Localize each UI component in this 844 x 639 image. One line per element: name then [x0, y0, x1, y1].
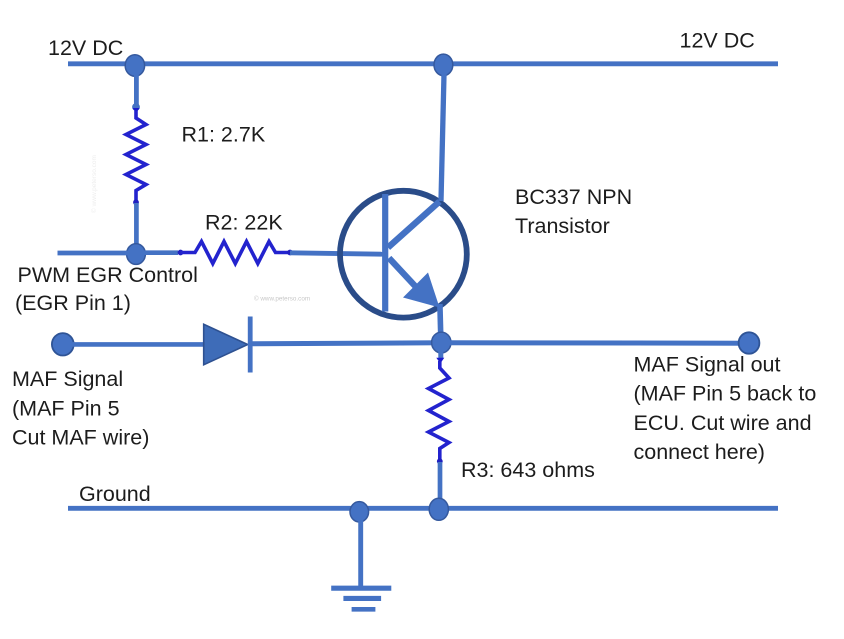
- label 12V DC right: [680, 29, 755, 53]
- wire collector to node B: [441, 66, 444, 201]
- resistor R2: [178, 242, 293, 264]
- watermark vertical: [90, 155, 98, 213]
- svg-text:12V DC: 12V DC: [48, 36, 123, 60]
- wire node A to R1: [132, 65, 140, 111]
- node B (12V rail / collector junction): [434, 54, 453, 76]
- node C (emitter / MAF junction): [432, 332, 451, 353]
- svg-text:(MAF Pin 5: (MAF Pin 5: [12, 396, 120, 420]
- svg-text:R1: 2.7K: R1: 2.7K: [182, 122, 266, 146]
- resistor R3: [429, 358, 450, 464]
- label 12V DC left: [48, 36, 123, 60]
- svg-text:© www.peterso.com: © www.peterso.com: [90, 155, 98, 213]
- svg-text:(MAF Pin 5 back to: (MAF Pin 5 back to: [634, 382, 817, 406]
- wire node C to R3: [438, 342, 443, 358]
- svg-text:connect here): connect here): [634, 440, 765, 464]
- transistor Q1 circle: [340, 191, 467, 318]
- node PWM (EGR control junction): [127, 244, 146, 265]
- svg-text:12V DC: 12V DC: [680, 29, 755, 53]
- svg-text:Ground: Ground: [79, 482, 151, 506]
- label MAF Signal out: [634, 352, 817, 464]
- wire PWM node to R2: [136, 250, 178, 255]
- wire R2 to base: [290, 253, 384, 254]
- wire R3 to ground node: [438, 462, 443, 508]
- svg-text:BC337 NPN: BC337 NPN: [515, 185, 632, 209]
- wire ground rail: [68, 506, 778, 511]
- svg-text:MAF Signal out: MAF Signal out: [634, 352, 781, 376]
- transistor Q1 emitter stroke with arrow: [389, 258, 440, 308]
- label PWM EGR Control: [15, 263, 198, 315]
- svg-text:PWM EGR Control: PWM EGR Control: [18, 263, 198, 287]
- transistor Q1 collector stroke: [388, 202, 440, 248]
- resistor R1: [126, 108, 146, 205]
- node D (ground symbol junction): [350, 502, 369, 522]
- node E (R3 / ground rail junction): [429, 498, 448, 520]
- label Ground: [79, 482, 151, 506]
- svg-text:MAF Signal: MAF Signal: [12, 367, 123, 391]
- label MAF Signal: [12, 367, 149, 450]
- diode D1: [204, 317, 253, 373]
- node A (12V rail / R1 junction): [125, 55, 144, 77]
- value label R3: 643 ohms: [461, 458, 595, 482]
- wire PWM EGR control stub: [58, 251, 137, 256]
- wire ground stub: [358, 511, 363, 586]
- watermark center: [254, 295, 310, 303]
- wire diode to node C: [252, 343, 441, 344]
- terminal MAF signal in: [52, 333, 74, 355]
- terminal MAF signal out: [739, 332, 760, 353]
- wire 12V DC top rail: [68, 61, 778, 66]
- svg-text:R3: 643 ohms: R3: 643 ohms: [461, 458, 595, 482]
- svg-text:R2: 22K: R2: 22K: [205, 210, 283, 234]
- wire node C to MAF signal out terminal: [441, 340, 749, 345]
- wire R1 to PWM node: [134, 203, 139, 252]
- svg-text:ECU. Cut wire and: ECU. Cut wire and: [634, 411, 812, 435]
- value label R2: 22K: [205, 210, 283, 234]
- svg-text:Transistor: Transistor: [515, 214, 610, 238]
- svg-text:© www.peterso.com: © www.peterso.com: [254, 295, 310, 303]
- label BC337 NPN Transistor: [515, 185, 632, 238]
- transistor Q1 base bar: [382, 194, 388, 312]
- wire emitter to node C: [440, 304, 441, 342]
- wire MAF signal in to diode: [63, 342, 204, 347]
- svg-text:Cut MAF wire): Cut MAF wire): [12, 426, 149, 450]
- svg-text:(EGR Pin 1): (EGR Pin 1): [15, 291, 131, 315]
- ground symbol: [331, 588, 391, 609]
- value label R1: 2.7K: [182, 122, 266, 146]
